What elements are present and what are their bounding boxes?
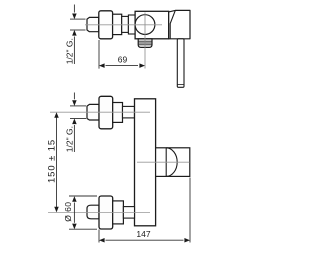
upper union body (front view) <box>113 103 123 123</box>
centerline top view <box>85 24 162 26</box>
lever rod (top view, pointing forward) <box>177 39 184 88</box>
upper union nut (front view) <box>87 104 99 120</box>
union body (top view) <box>113 14 122 34</box>
upper wall flange (front view) <box>99 96 113 129</box>
lever wedge diagonal <box>170 10 175 38</box>
cartridge circle (top view) <box>135 15 155 35</box>
dimension dia 60 <box>69 196 97 229</box>
lower cap nut (front view) <box>87 205 99 219</box>
svg-text:69: 69 <box>118 54 128 64</box>
threaded outlet below body (top view) <box>138 39 152 48</box>
dimension 150 +/- 15 <box>56 117 58 208</box>
centerline upper inlet <box>50 111 150 113</box>
mixer body (front view) <box>135 99 156 226</box>
centerline lower inlet <box>48 211 150 213</box>
centerline lever boss <box>137 161 190 163</box>
upper connector neck (front view) <box>123 106 135 118</box>
dimension 147 <box>99 178 190 243</box>
lever boss (front view) <box>156 148 190 177</box>
svg-text:1/2" G.: 1/2" G. <box>64 38 74 64</box>
lever mount block (top view) <box>169 10 190 38</box>
dimension 1/2" G. (top view) <box>70 5 86 65</box>
connector neck (top view) <box>122 16 129 32</box>
svg-text:150 ± 15: 150 ± 15 <box>47 139 58 183</box>
svg-text:Ø 60: Ø 60 <box>63 202 73 222</box>
inlet boss (top view) <box>128 15 135 34</box>
mixer main body (top view) <box>135 11 169 39</box>
wall union nut (top view) <box>87 17 99 31</box>
dimension 69 <box>99 40 138 69</box>
lower union body (front view) <box>113 201 124 224</box>
circle vertical centerline / extension to 69 dim <box>144 13 146 69</box>
svg-text:147: 147 <box>136 229 150 239</box>
dimension 1/2" G. (front view) <box>70 93 86 153</box>
lower wall flange (front view) <box>99 196 113 229</box>
svg-text:1/2" G.: 1/2" G. <box>64 126 74 152</box>
lower connector neck (front view) <box>123 207 134 219</box>
wall flange (top view) <box>99 11 113 39</box>
